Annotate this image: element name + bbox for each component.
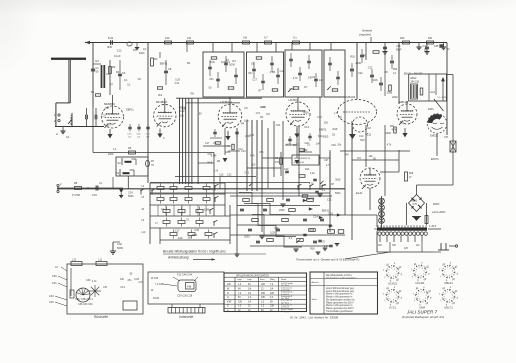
svg-text:C12: C12: [400, 122, 405, 125]
svg-text:4,7k: 4,7k: [387, 144, 392, 147]
svg-text:C30: C30: [86, 279, 91, 282]
svg-text:f2/f6: f2/f6: [107, 46, 112, 49]
svg-text:C22: C22: [368, 67, 373, 70]
svg-text:6: 6: [452, 295, 453, 297]
svg-text:7: 7: [444, 272, 445, 274]
svg-text:EM71: EM71: [431, 157, 439, 161]
svg-text:2200: 2200: [279, 209, 285, 212]
svg-text:0,1: 0,1: [124, 79, 128, 82]
svg-text:R16: R16: [310, 229, 315, 232]
svg-text:25n: 25n: [209, 78, 214, 81]
svg-text:C36 C33 C34: C36 C33 C34: [78, 303, 93, 306]
svg-text:C39: C39: [49, 301, 54, 304]
svg-text:Werte in Volt gemessen m.: Werte in Volt gemessen m.: [326, 293, 353, 296]
svg-text:Trennschalter nur b. Geraten a: Trennschalter nur b. Geraten auf Nr 53 E…: [296, 258, 359, 262]
svg-text:Antrieb: Antrieb: [311, 281, 320, 284]
svg-text:5000: 5000: [229, 63, 235, 66]
svg-text:C14: C14: [225, 61, 230, 64]
svg-text:5: 5: [446, 275, 447, 277]
svg-text:5000: 5000: [128, 195, 134, 198]
svg-text:1M: 1M: [367, 127, 370, 130]
svg-text:5000: 5000: [335, 178, 341, 181]
svg-text:1: 1: [423, 274, 424, 276]
svg-text:1: 1: [451, 274, 452, 276]
svg-text:JALI SUPER 7: JALI SUPER 7: [406, 310, 438, 315]
svg-text:100: 100: [165, 36, 170, 40]
svg-text:C26: C26: [52, 275, 57, 278]
svg-text:0,25: 0,25: [270, 232, 275, 235]
svg-text:C31: C31: [276, 124, 281, 127]
svg-text:Antriebsstrang: Antriebsstrang: [167, 256, 189, 260]
svg-text:C29 C30 C28: C29 C30 C28: [177, 295, 193, 298]
svg-text:8,2k: 8,2k: [210, 61, 215, 64]
svg-text:0,5M: 0,5M: [204, 208, 210, 211]
svg-text:C12: C12: [359, 135, 364, 138]
svg-text:C15: C15: [219, 174, 224, 177]
svg-text:R2: R2: [112, 65, 116, 69]
svg-text:2: 2: [421, 292, 422, 294]
svg-text:470: 470: [275, 161, 280, 164]
svg-text:UCH21x: UCH21x: [221, 100, 233, 104]
svg-text:1: 1: [395, 298, 396, 300]
svg-text:C42: C42: [117, 242, 122, 246]
svg-text:0: 0: [444, 293, 445, 295]
svg-text:C17: C17: [256, 112, 261, 115]
svg-text:1: 1: [395, 274, 396, 276]
svg-text:C31: C31: [245, 172, 250, 175]
svg-text:4,7k: 4,7k: [392, 128, 397, 131]
svg-text:EBL2: EBL2: [411, 77, 418, 80]
svg-text:1M: 1M: [266, 113, 269, 116]
svg-text:Unterseite: Unterseite: [179, 315, 194, 319]
svg-text:C75: C75: [413, 203, 418, 206]
svg-text:C27: C27: [252, 78, 257, 81]
svg-text:C14: C14: [313, 216, 318, 219]
svg-text:R16: R16: [373, 79, 378, 82]
svg-text:W C34: W C34: [151, 277, 159, 280]
svg-text:5000: 5000: [335, 192, 341, 195]
svg-text:Trennschalter geschlossen: Trennschalter geschlossen: [326, 310, 354, 313]
svg-text:UY21: UY21: [389, 305, 396, 309]
svg-text:C17: C17: [205, 142, 210, 145]
svg-text:3: 3: [393, 300, 394, 302]
svg-text:0,1nF: 0,1nF: [114, 54, 121, 58]
svg-text:EM4: EM4: [428, 107, 434, 111]
svg-text:C14: C14: [317, 116, 322, 119]
svg-text:2000: 2000: [108, 153, 114, 156]
svg-text:R3: R3: [154, 57, 158, 61]
svg-text:3: 3: [449, 300, 450, 302]
svg-text:1nF: 1nF: [274, 227, 279, 230]
svg-text:(regulier): (regulier): [359, 33, 371, 37]
svg-text:Die Spannungen wurden mit: Die Spannungen wurden mit: [326, 298, 355, 301]
svg-text:C6: C6: [122, 71, 126, 75]
svg-text:R31: R31: [428, 37, 433, 40]
svg-text:Lage: Lage: [247, 279, 253, 281]
svg-text:2k2: 2k2: [158, 93, 163, 97]
svg-text:8,2k: 8,2k: [318, 135, 323, 138]
svg-text:0,1: 0,1: [308, 76, 312, 79]
svg-text:C40: C40: [284, 168, 289, 171]
svg-text:6: 6: [452, 270, 453, 272]
svg-text:5: 5: [390, 299, 391, 301]
svg-text:L12: L12: [72, 259, 77, 262]
svg-text:1,2k: 1,2k: [310, 172, 315, 175]
svg-text:2: 2: [447, 292, 448, 294]
svg-text:5: 5: [417, 275, 418, 277]
svg-text:1W: 1W: [243, 36, 247, 40]
svg-text:7: 7: [415, 272, 416, 274]
svg-text:alle Kondens. in pF angegeben: alle Kondens. in pF angegeben: [326, 277, 357, 279]
svg-text:C27: C27: [105, 107, 110, 110]
svg-text:4000: 4000: [139, 52, 145, 55]
svg-text:4,7k: 4,7k: [309, 183, 314, 186]
svg-text:C36: C36: [250, 134, 255, 137]
svg-text:284.233: 284.233: [414, 74, 423, 76]
svg-text:4,7k: 4,7k: [250, 155, 255, 158]
svg-text:4,7k: 4,7k: [214, 169, 219, 172]
svg-text:64 05: 64 05: [153, 297, 160, 300]
svg-text:Werte in Volt gemessen m.: Werte in Volt gemessen m.: [326, 304, 353, 307]
svg-text:NF480C: NF480C: [156, 100, 168, 104]
svg-text:4,7k: 4,7k: [92, 280, 97, 283]
svg-text:C31: C31: [327, 198, 332, 201]
svg-text:5000: 5000: [303, 112, 309, 115]
svg-text:C31: C31: [106, 124, 111, 127]
svg-text:2: 2: [447, 267, 448, 269]
svg-text:1: 1: [425, 298, 426, 300]
svg-text:Gm2: Gm2: [430, 92, 436, 94]
svg-text:25n: 25n: [259, 151, 264, 154]
svg-text:7: 7: [388, 273, 389, 275]
svg-text:1W: 1W: [187, 36, 191, 40]
svg-text:C31: C31: [261, 106, 266, 109]
svg-text:5000: 5000: [323, 136, 329, 139]
svg-text:6: 6: [396, 295, 397, 297]
svg-text:W. Nr. 1843 · Lfd. Ateliers: W. Nr. 1843 · Lfd. Ateliers Nr. 53508: [290, 316, 338, 320]
svg-text:C27: C27: [102, 115, 107, 118]
svg-text:8,2k: 8,2k: [244, 120, 249, 123]
svg-text:3: 3: [393, 276, 394, 278]
svg-text:einem Rohrenvoltmeter geg.: einem Rohrenvoltmeter geg.: [326, 287, 355, 290]
svg-text:C: C: [227, 304, 229, 308]
svg-text:0,1: 0,1: [99, 182, 103, 185]
svg-text:Bei alle Wicklungsdaten Trcmt.: Bei alle Wicklungsdaten Trcmt. i Vogritt…: [163, 250, 227, 254]
svg-text:1M: 1M: [217, 160, 220, 163]
svg-text:R16: R16: [360, 139, 365, 142]
svg-text:0,1: 0,1: [143, 47, 147, 51]
svg-text:C43: C43: [49, 295, 54, 298]
svg-text:5: 5: [390, 275, 391, 277]
svg-text:6: 6: [424, 270, 425, 272]
svg-text:(Imported Radiogram Amplif. AC: (Imported Radiogram Amplif. AC): [402, 315, 445, 319]
svg-text:C16: C16: [92, 193, 97, 197]
svg-text:0: 0: [418, 293, 419, 295]
svg-text:C14: C14: [241, 150, 246, 153]
svg-text:25n: 25n: [248, 72, 253, 75]
svg-text:2: 2: [391, 268, 392, 270]
svg-text:4n7: 4n7: [95, 59, 100, 63]
svg-text:C14: C14: [120, 286, 125, 289]
svg-text:K: K: [227, 291, 229, 295]
svg-text:C31: C31: [208, 153, 213, 156]
svg-text:L11: L11: [98, 259, 103, 262]
svg-text:C35: C35: [434, 45, 439, 48]
svg-text:200p: 200p: [387, 92, 393, 95]
svg-text:EBF11: EBF11: [160, 63, 168, 66]
svg-text:KW: KW: [227, 299, 232, 303]
svg-text:7: 7: [388, 297, 389, 299]
svg-text:C47: C47: [324, 159, 329, 162]
svg-text:0,1: 0,1: [289, 237, 293, 240]
svg-text:C8: C8: [168, 67, 172, 71]
svg-text:EL41: EL41: [356, 191, 363, 195]
svg-text:Masse gemessen bei 220 V: Masse gemessen bei 220 V: [326, 308, 354, 310]
svg-text:100: 100: [251, 163, 256, 166]
svg-text:EBL21: EBL21: [404, 74, 412, 76]
svg-text:Werte in Volt gemessen m.: Werte in Volt gemessen m.: [326, 296, 353, 299]
svg-text:C41: C41: [52, 282, 57, 285]
svg-text:UCH21: UCH21: [415, 281, 425, 285]
svg-text:SPULEN-WICKLUNGSDATEN: SPULEN-WICKLUNGSDATEN: [236, 274, 269, 277]
svg-text:DWC: DWC: [433, 202, 441, 206]
svg-text:5000: 5000: [117, 246, 123, 250]
svg-text:0,1: 0,1: [293, 36, 297, 40]
svg-text:W18: W18: [207, 162, 213, 165]
svg-text:2-lagig gew.: 2-lagig gew.: [281, 311, 292, 313]
svg-text:8,2k: 8,2k: [178, 237, 183, 240]
svg-text:2: 2: [391, 292, 392, 294]
svg-text:7 a C38: 7 a C38: [155, 283, 164, 286]
svg-text:Skala: Skala: [312, 299, 318, 301]
svg-text:100: 100: [187, 237, 192, 240]
svg-text:0,1: 0,1: [66, 135, 70, 139]
svg-text:2200: 2200: [356, 62, 362, 65]
svg-text:0: 0: [388, 293, 389, 295]
svg-text:1nF: 1nF: [319, 79, 324, 82]
svg-text:C17: C17: [175, 229, 180, 232]
svg-text:6: 6: [396, 271, 397, 273]
svg-text:C27: C27: [306, 198, 311, 201]
svg-text:1: 1: [451, 298, 452, 300]
svg-text:C37: C37: [103, 286, 108, 289]
svg-text:U: U: [227, 295, 229, 299]
svg-text:3: 3: [422, 300, 423, 302]
svg-text:UCH21: UCH21: [388, 282, 398, 286]
svg-text:S2: S2: [118, 161, 122, 165]
svg-text:100: 100: [182, 108, 187, 111]
svg-text:R14: R14: [305, 168, 310, 171]
svg-text:0,1: 0,1: [127, 84, 131, 87]
svg-text:einem Rohrenvoltmeter geg.: einem Rohrenvoltmeter geg.: [326, 290, 355, 293]
svg-text:C14: C14: [304, 126, 309, 129]
svg-text:C12: C12: [175, 82, 180, 85]
svg-text:0: 0: [444, 269, 445, 271]
svg-text:C31/ C38/ C35 1: C31/ C38/ C35 1: [75, 298, 93, 301]
svg-text:7: 7: [444, 297, 445, 299]
svg-text:0,25: 0,25: [175, 79, 180, 82]
svg-text:25n: 25n: [128, 279, 133, 282]
svg-text:C4: C4: [106, 72, 110, 76]
svg-text:2: 2: [419, 267, 420, 269]
svg-text:4,7: 4,7: [264, 36, 268, 40]
svg-text:284 233: 284 233: [411, 81, 420, 84]
svg-text:3: 3: [420, 275, 421, 277]
svg-text:Masse gemessen bei 220 V: Masse gemessen bei 220 V: [326, 302, 354, 304]
svg-text:LW: LW: [227, 282, 231, 286]
svg-text:R28: R28: [409, 173, 414, 175]
svg-text:2200: 2200: [392, 96, 398, 99]
svg-text:5: 5: [446, 299, 447, 301]
svg-text:1nF: 1nF: [316, 143, 321, 146]
svg-text:UEL71: UEL71: [444, 305, 453, 309]
svg-text:W18: W18: [192, 234, 198, 237]
svg-text:C37: C37: [444, 137, 449, 139]
svg-text:4,7k: 4,7k: [293, 77, 298, 80]
svg-text:C22: C22: [358, 72, 363, 75]
svg-text:F12 C46 C44: F12 C46 C44: [177, 274, 192, 277]
svg-text:S1: S1: [116, 171, 120, 175]
svg-text:R5: R5: [128, 146, 132, 150]
svg-text:R16: R16: [310, 247, 315, 250]
svg-text:0: 0: [388, 270, 389, 272]
svg-text:1 Z13: 1 Z13: [429, 224, 437, 228]
svg-text:EBF11: EBF11: [319, 129, 327, 132]
svg-text:A: A: [56, 132, 58, 136]
svg-text:5: 5: [419, 299, 420, 301]
svg-text:extra AMC: extra AMC: [432, 210, 446, 214]
svg-text:2200: 2200: [386, 132, 392, 135]
svg-text:4,7k: 4,7k: [138, 281, 143, 284]
svg-text:2xB443: 2xB443: [345, 95, 356, 99]
svg-text:0,5M: 0,5M: [270, 71, 275, 74]
svg-text:R23: R23: [393, 69, 398, 71]
svg-text:Draht: Draht: [281, 278, 287, 281]
svg-text:R30: R30: [400, 37, 405, 40]
svg-text:6: 6: [426, 295, 427, 297]
svg-text:R17: R17: [133, 49, 138, 52]
svg-text:EM321: EM321: [430, 134, 439, 138]
svg-text:EBF11: EBF11: [126, 108, 134, 111]
svg-text:UCH21: UCH21: [288, 98, 298, 102]
svg-text:P 0,5M: P 0,5M: [72, 194, 80, 197]
svg-text:C36: C36: [194, 229, 199, 232]
svg-text:C22: C22: [305, 142, 310, 145]
svg-text:C36: C36: [331, 144, 336, 147]
svg-text:C12: C12: [227, 174, 232, 177]
svg-text:0,1: 0,1: [186, 219, 190, 222]
svg-text:Lage: Lage: [237, 279, 243, 281]
svg-text:0: 0: [416, 269, 417, 271]
svg-text:NF480C: NF480C: [104, 102, 116, 106]
svg-text:3: 3: [449, 275, 450, 277]
svg-text:438: 438: [187, 286, 192, 289]
svg-text:C12: C12: [117, 49, 122, 52]
svg-text:Rückseite: Rückseite: [94, 315, 108, 319]
svg-text:TELEFUNKEN W.: TELEFUNKEN W.: [294, 158, 311, 160]
svg-text:100: 100: [324, 122, 329, 125]
svg-text:UBL21: UBL21: [444, 281, 453, 285]
svg-text:7: 7: [417, 297, 418, 299]
svg-text:R16: R16: [350, 56, 355, 59]
svg-text:C14: C14: [280, 70, 285, 73]
svg-text:C31: C31: [329, 213, 334, 216]
svg-text:2200: 2200: [225, 151, 231, 154]
svg-text:2200: 2200: [244, 236, 250, 239]
svg-text:R12: R12: [211, 189, 216, 192]
svg-text:8,2k: 8,2k: [108, 36, 114, 40]
svg-text:W18: W18: [332, 128, 338, 131]
